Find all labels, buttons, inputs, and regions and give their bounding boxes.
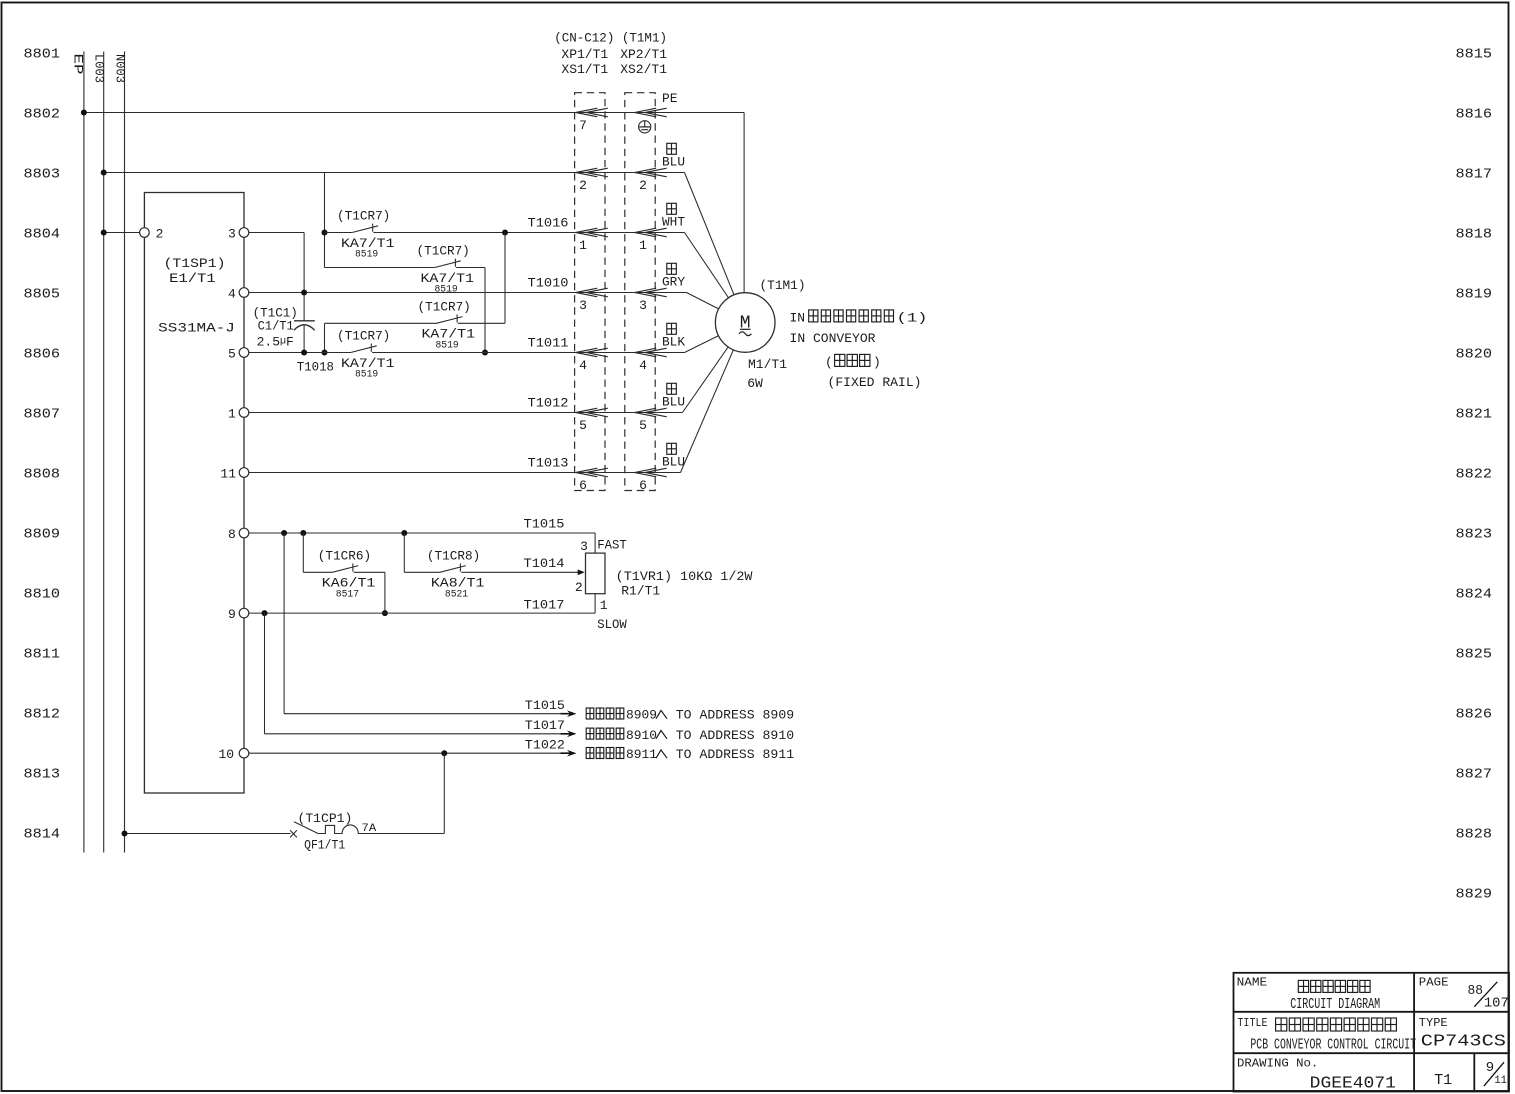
svg-text:1: 1	[579, 238, 587, 253]
svg-text:DRAWING No.: DRAWING No.	[1237, 1057, 1318, 1071]
svg-text:3: 3	[639, 298, 647, 313]
svg-text:(T1CR7): (T1CR7)	[418, 299, 471, 314]
pin 3 of U1	[228, 227, 249, 242]
svg-text:(T1CR6): (T1CR6)	[318, 548, 371, 563]
svg-text:8811: 8811	[24, 647, 61, 663]
svg-text:8817: 8817	[1456, 167, 1493, 183]
svg-text:5: 5	[639, 418, 647, 433]
svg-text:2: 2	[156, 227, 164, 242]
svg-text:(: (	[825, 355, 833, 370]
svg-text:8806: 8806	[24, 347, 61, 363]
wire T1014 into resistor pin 2	[467, 556, 585, 595]
svg-text:8521: 8521	[445, 589, 468, 600]
svg-text:8807: 8807	[24, 407, 61, 423]
svg-text:3: 3	[580, 539, 588, 554]
svg-text:T1010: T1010	[528, 276, 569, 291]
svg-text:SLOW: SLOW	[597, 617, 627, 632]
svg-text:9: 9	[1486, 1060, 1494, 1076]
relay contact KA7/T1 no.4 (T1CR7) 8519 on row 8806	[327, 329, 395, 381]
svg-text:T1022: T1022	[525, 738, 565, 753]
svg-text:3: 3	[579, 298, 587, 313]
wire row 8808: pin 11 to connector T1013, motor lead BLU	[249, 323, 745, 473]
svg-text:8829: 8829	[1456, 887, 1493, 903]
svg-text:8801: 8801	[24, 47, 61, 63]
connector XP1/XS1 (CN-C12)	[575, 93, 608, 493]
pin 1 of U1	[228, 407, 249, 422]
svg-text:1: 1	[228, 407, 236, 422]
svg-text:8909: 8909	[626, 708, 657, 723]
svg-text:BLU: BLU	[662, 455, 685, 470]
svg-text:8824: 8824	[1456, 587, 1493, 603]
resistor R1/T1 (T1VR1) 10Kohm 1/2W	[580, 538, 753, 633]
svg-text:8517: 8517	[336, 589, 359, 600]
svg-text:11: 11	[220, 467, 236, 482]
svg-text:8825: 8825	[1456, 647, 1493, 663]
pin 8 of U1	[228, 527, 249, 542]
wire row 8809: pin 8 T1015 to resistor pin 3	[249, 517, 595, 554]
svg-text:9: 9	[228, 607, 236, 622]
svg-text:NAME: NAME	[1237, 976, 1268, 990]
svg-text:TO ADDRESS 8909: TO ADDRESS 8909	[676, 708, 794, 723]
wire 300L to pin 2 of U1	[101, 230, 140, 236]
svg-text:): )	[873, 355, 881, 370]
wire row 8805: pin 4 to connector T1010, motor lead GRY	[249, 276, 745, 323]
bus 300N	[112, 52, 127, 853]
svg-text:11: 11	[1494, 1075, 1507, 1087]
svg-text:(1): (1)	[897, 311, 928, 326]
ground earth symbol on connector pin	[639, 121, 651, 133]
svg-text:BLU: BLU	[662, 155, 685, 170]
wire color label GRY	[662, 263, 685, 289]
svg-text:2: 2	[639, 178, 647, 193]
svg-text:CP743CS: CP743CS	[1421, 1033, 1506, 1052]
svg-text:EP: EP	[71, 54, 86, 75]
svg-text:TYPE: TYPE	[1419, 1016, 1448, 1030]
svg-text:7: 7	[579, 118, 587, 133]
svg-text:N003: N003	[112, 54, 127, 83]
svg-text:(T1CR8): (T1CR8)	[427, 548, 480, 563]
svg-text:3: 3	[228, 227, 236, 242]
svg-text:DGEE4071: DGEE4071	[1310, 1075, 1396, 1094]
svg-text:XS2/T1: XS2/T1	[620, 62, 667, 77]
svg-text:8519: 8519	[355, 250, 378, 261]
svg-text:(T1SP1): (T1SP1)	[164, 256, 226, 271]
svg-text:8827: 8827	[1456, 767, 1493, 783]
svg-text:5: 5	[228, 347, 236, 362]
svg-text:T1: T1	[1434, 1072, 1452, 1089]
wire color label BLU	[662, 383, 685, 409]
svg-text:(T1VR1) 10KΩ 1/2W: (T1VR1) 10KΩ 1/2W	[616, 569, 753, 584]
wire pin 3 branch down to capacitor node	[249, 233, 304, 321]
connector XP2/XS2 (T1M1)	[625, 93, 667, 493]
svg-text:107: 107	[1484, 996, 1509, 1012]
svg-text:BLK: BLK	[662, 335, 685, 350]
svg-text:(FIXED RAIL): (FIXED RAIL)	[828, 375, 922, 390]
svg-text:6: 6	[639, 478, 647, 493]
wire pin 9 T1017 to resistor pin 1	[249, 594, 595, 616]
wire T1016 to connector, motor lead WHT	[377, 216, 745, 323]
svg-text:QF1/T1: QF1/T1	[304, 837, 345, 852]
svg-text:8519: 8519	[436, 340, 459, 351]
svg-text:7A: 7A	[362, 823, 377, 835]
svg-text:SS31MA-J: SS31MA-J	[158, 321, 235, 336]
svg-text:8810: 8810	[24, 587, 61, 603]
svg-text:8: 8	[228, 527, 236, 542]
wire color label BLU	[662, 143, 685, 169]
svg-text:8820: 8820	[1456, 347, 1493, 363]
svg-text:T1014: T1014	[524, 556, 565, 571]
svg-text:T1015: T1015	[524, 517, 565, 532]
wire row 8803: 300L to motor lead BLU	[101, 170, 746, 323]
svg-text:8808: 8808	[24, 467, 61, 483]
connector header labels (CN-C12)(T1M1) XP1/T1 XP2/T1 XS1/T1 XS2/T1	[554, 31, 667, 78]
pin 11 of U1	[220, 467, 248, 482]
svg-text:WHT: WHT	[662, 215, 685, 230]
svg-text:8822: 8822	[1456, 467, 1493, 483]
svg-text:IN: IN	[790, 311, 806, 326]
svg-text:T1018: T1018	[297, 360, 334, 375]
component U1 SS31MA-J speed controller (T1SP1) E1/T1	[144, 193, 244, 794]
svg-text:8519: 8519	[355, 370, 378, 381]
svg-text:88: 88	[1468, 983, 1483, 999]
svg-text:6W: 6W	[747, 376, 763, 391]
svg-text:T1015: T1015	[525, 698, 565, 713]
svg-text:8805: 8805	[24, 287, 61, 303]
svg-text:(T1CR7): (T1CR7)	[337, 329, 390, 344]
svg-text:T1017: T1017	[525, 718, 565, 733]
motor M1/T1 (T1M1) 6W	[715, 278, 805, 391]
relay contact KA8/T1 (T1CR8) 8521	[404, 533, 484, 600]
circuit breaker QF1/T1 (T1CP1) 7A	[122, 753, 445, 852]
svg-text:8821: 8821	[1456, 407, 1493, 423]
svg-text:1: 1	[639, 238, 647, 253]
svg-text:E1/T1: E1/T1	[169, 271, 216, 286]
svg-text:T1013: T1013	[528, 456, 569, 471]
relay contact KA7/T1 no.3 (T1CR7) 8519 jog row	[322, 233, 506, 356]
svg-text:(CN-C12) (T1M1): (CN-C12) (T1M1)	[554, 31, 667, 46]
svg-text:8816: 8816	[1456, 107, 1493, 123]
wire node: 8803 drop to contact column	[322, 173, 328, 268]
svg-text:T1017: T1017	[524, 598, 565, 613]
wire color label WHT	[662, 203, 685, 229]
capacitor C1 (T1C1) C1/T1 2.5uF	[253, 306, 315, 353]
svg-text:8809: 8809	[24, 527, 61, 543]
svg-text:PAGE: PAGE	[1419, 976, 1449, 990]
wire T1015 to address 8909	[284, 533, 794, 723]
svg-text:IN CONVEYOR: IN CONVEYOR	[790, 331, 876, 346]
svg-text:8804: 8804	[24, 227, 61, 243]
svg-text:(T1CR7): (T1CR7)	[417, 244, 470, 259]
svg-text:2.5µF: 2.5µF	[257, 335, 294, 350]
pin 10 of U1	[218, 747, 248, 762]
svg-text:8803: 8803	[24, 167, 61, 183]
pin 9 of U1	[228, 607, 249, 622]
svg-text:10: 10	[218, 747, 234, 762]
wire T1017 to address 8910	[265, 613, 795, 743]
svg-text:8910: 8910	[626, 728, 657, 743]
svg-text:R1/T1: R1/T1	[621, 584, 660, 599]
svg-text:8814: 8814	[24, 827, 61, 843]
svg-text:8818: 8818	[1456, 227, 1493, 243]
svg-text:T1012: T1012	[528, 396, 569, 411]
svg-text:FAST: FAST	[597, 538, 627, 553]
svg-text:GRY: GRY	[662, 275, 685, 290]
svg-text:8519: 8519	[435, 285, 458, 296]
pin 2 of U1	[140, 227, 164, 242]
svg-text:PCB CONVEYOR CONTROL CIRCUIT: PCB CONVEYOR CONTROL CIRCUIT	[1250, 1036, 1416, 1053]
wire row 8802: PE bus to motor, label PE	[81, 91, 744, 322]
pin 4 of U1	[228, 287, 249, 302]
svg-text:M: M	[740, 313, 751, 333]
svg-text:2: 2	[575, 580, 583, 595]
svg-text:L003: L003	[91, 54, 106, 83]
svg-text:XP2/T1: XP2/T1	[620, 47, 667, 62]
svg-text:8813: 8813	[24, 767, 61, 783]
relay contact KA7/T1 no.2 (T1CR7) 8519 jog row	[325, 244, 489, 356]
svg-text:8812: 8812	[24, 707, 61, 723]
svg-text:8823: 8823	[1456, 527, 1493, 543]
svg-text:M1/T1: M1/T1	[748, 357, 787, 372]
svg-text:BLU: BLU	[662, 395, 685, 410]
svg-text:5: 5	[579, 418, 587, 433]
svg-text:XS1/T1: XS1/T1	[561, 62, 608, 77]
wire row 8807: pin 1 to connector T1012, motor lead BLU	[249, 323, 745, 413]
svg-text:8826: 8826	[1456, 707, 1493, 723]
svg-text:8802: 8802	[24, 107, 61, 123]
wire row 8806: pin 5 to connector T1011, motor lead BLK	[249, 323, 745, 356]
svg-text:4: 4	[228, 287, 236, 302]
svg-text:TO ADDRESS 8911: TO ADDRESS 8911	[676, 747, 794, 762]
svg-text:TITLE: TITLE	[1237, 1016, 1267, 1030]
relay contact KA6/T1 (T1CR6) 8517	[303, 533, 388, 616]
wire color label BLK	[662, 323, 685, 349]
svg-text:1: 1	[600, 598, 608, 613]
label motor description IN CONVEYOR (FIXED RAIL)	[790, 310, 928, 390]
svg-text:TO ADDRESS 8910: TO ADDRESS 8910	[676, 728, 794, 743]
svg-text:8911: 8911	[626, 747, 657, 762]
node T1018 label	[297, 360, 334, 375]
relay contact KA7/T1 no.1 (T1CR7) 8519 on T1016	[325, 209, 395, 261]
svg-text:T1016: T1016	[528, 216, 569, 231]
svg-text:XP1/T1: XP1/T1	[561, 47, 608, 62]
svg-text:(T1M1): (T1M1)	[760, 278, 806, 293]
svg-text:6: 6	[579, 478, 587, 493]
svg-text:8819: 8819	[1456, 287, 1493, 303]
svg-text:4: 4	[639, 358, 647, 373]
bus PE	[71, 52, 86, 853]
pin 5 of U1	[228, 347, 249, 362]
bus 300L	[91, 52, 106, 853]
svg-text:T1011: T1011	[528, 336, 569, 351]
wire T1022 pin 10 to address 8911	[249, 738, 794, 763]
wire color label BLU	[662, 443, 685, 469]
svg-text:CIRCUIT DIAGRAM: CIRCUIT DIAGRAM	[1290, 996, 1380, 1013]
svg-text:8828: 8828	[1456, 827, 1493, 843]
svg-text:4: 4	[579, 358, 587, 373]
svg-text:C1/T1: C1/T1	[258, 319, 294, 334]
svg-text:2: 2	[579, 178, 587, 193]
svg-text:8815: 8815	[1456, 47, 1493, 63]
svg-text:(T1CP1): (T1CP1)	[298, 811, 353, 826]
svg-text:PE: PE	[662, 91, 678, 106]
svg-text:(T1CR7): (T1CR7)	[337, 209, 390, 224]
